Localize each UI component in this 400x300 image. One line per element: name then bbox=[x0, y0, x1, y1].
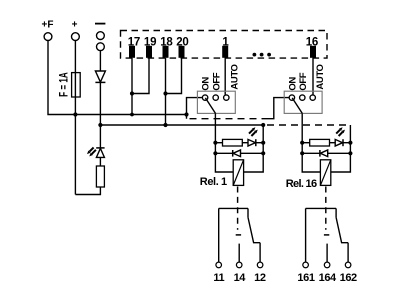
wire + through fuse down to indicator loop bbox=[74, 41, 76, 195]
wire +F to bus A bbox=[48, 41, 187, 115]
wire LED to resistor bbox=[99, 157, 101, 166]
LED relay 16 bbox=[335, 139, 342, 146]
LED power indicator bbox=[96, 147, 104, 149]
svg-text:164: 164 bbox=[319, 272, 337, 284]
terminal 162 bbox=[345, 262, 351, 268]
terminal - upper bbox=[97, 32, 105, 40]
wire 20 joins 18 bbox=[166, 58, 182, 94]
junction dot bus B left bbox=[98, 123, 102, 127]
terminal 11 bbox=[216, 262, 222, 268]
switch S1 AUTO contact bbox=[224, 95, 229, 100]
contact blade relay 16 bbox=[336, 217, 348, 242]
wire 17 to bus A bbox=[131, 58, 133, 115]
junction dot R branch left relay16 bbox=[300, 141, 304, 145]
wire relay 1 common bbox=[215, 113, 233, 172]
wire relay 16 common bbox=[302, 113, 320, 172]
junction dot diode branch left bbox=[213, 151, 217, 155]
wire diode to bus B and LED bbox=[99, 82, 101, 147]
contact blade relay 1 bbox=[248, 217, 260, 242]
svg-text:11: 11 bbox=[213, 272, 224, 284]
svg-text:F = 1A: F = 1A bbox=[58, 72, 71, 97]
relay coil Rel.1 bbox=[233, 160, 243, 186]
wire feed switch 16 ON bbox=[268, 98, 290, 119]
svg-text:12: 12 bbox=[254, 272, 266, 284]
junction dot relay1 right diode branch bbox=[261, 151, 265, 155]
wire to resistor bbox=[215, 142, 222, 144]
svg-text:+F: +F bbox=[42, 20, 54, 31]
ellipsis dots bbox=[253, 53, 272, 57]
svg-text:14: 14 bbox=[234, 272, 247, 284]
terminal 161 bbox=[303, 262, 309, 268]
switch S1 ON contact bbox=[202, 95, 207, 100]
junction dot relay1 bus B bbox=[261, 123, 265, 127]
terminal 1 pin bbox=[222, 46, 228, 58]
junction dot bus A feed bbox=[184, 112, 188, 116]
terminal + bbox=[72, 33, 80, 41]
svg-text:161: 161 bbox=[297, 272, 314, 284]
resistor R1 bbox=[96, 166, 104, 187]
svg-text:+: + bbox=[72, 20, 78, 31]
svg-text:OFF: OFF bbox=[298, 72, 309, 90]
terminal 19 pin bbox=[146, 46, 152, 58]
junction dot 17 bus A bbox=[130, 113, 134, 117]
terminal 17 pin bbox=[129, 46, 135, 58]
svg-text:OFF: OFF bbox=[211, 72, 222, 90]
freewheel diode relay 16 bbox=[302, 152, 320, 154]
junction dot relay16 right diode branch bbox=[348, 151, 352, 155]
terminal 14 bbox=[236, 262, 242, 268]
junction dot 19-17 bbox=[130, 91, 134, 95]
wire resistor bottom loop to + rail bbox=[75, 187, 100, 195]
resistor relay 1 bbox=[223, 139, 243, 146]
bus B solid bbox=[100, 124, 263, 126]
junction dot 18 bus B bbox=[163, 123, 167, 127]
terminal 16 pin bbox=[310, 46, 316, 58]
switch S1 box bbox=[197, 91, 235, 113]
wire feed switch 1 ON bbox=[187, 98, 203, 119]
resistor relay 16 bbox=[310, 139, 330, 146]
switch S16 ON contact bbox=[289, 95, 294, 100]
relay 16 contact top bar bbox=[306, 207, 337, 209]
terminal - lower bbox=[97, 43, 105, 51]
svg-text:Rel. 1: Rel. 1 bbox=[200, 176, 227, 188]
junction dot 20-18 bbox=[163, 91, 167, 95]
relay 1 contact top bar bbox=[219, 207, 248, 209]
junction dot diode branch left relay16 bbox=[300, 151, 304, 155]
terminal 164 bbox=[324, 262, 330, 268]
bus B dashed continuation bbox=[267, 124, 350, 126]
fuse F1 bbox=[72, 73, 81, 97]
wire 18 to bus B bbox=[165, 58, 167, 125]
LED arrows bbox=[90, 148, 96, 154]
svg-text:ON: ON bbox=[288, 77, 299, 91]
terminal 12 bbox=[257, 262, 263, 268]
terminal 18 pin bbox=[163, 46, 169, 58]
wire 19 joins 17 bbox=[132, 58, 149, 94]
connector dashed box bbox=[121, 31, 328, 59]
switch S16 OFF contact bbox=[300, 95, 305, 100]
wire terminal 11 bbox=[218, 208, 220, 262]
wire dashed feed channels 2..16 bbox=[190, 118, 268, 120]
mechanical link relay 1 bbox=[237, 187, 239, 230]
LED relay 16 arrows bbox=[336, 130, 342, 136]
wire input 1 to AUTO contact bbox=[224, 58, 226, 95]
junction dot relay16 right R branch bbox=[348, 141, 352, 145]
terminal +F bbox=[44, 33, 52, 41]
wire relay 16 right side bbox=[331, 125, 351, 172]
switch S16 AUTO contact bbox=[310, 95, 315, 100]
LED relay 1 bbox=[248, 139, 255, 146]
wire resistor to LED relay16 bbox=[330, 142, 336, 144]
wire resistor to LED bbox=[242, 142, 248, 144]
mechanical link relay 16 bbox=[325, 187, 327, 230]
svg-text:ON: ON bbox=[201, 77, 212, 91]
wire relay 1 right side bbox=[244, 125, 264, 172]
switch S1 OFF contact bbox=[213, 95, 218, 100]
junction dot R branch left bbox=[213, 141, 217, 145]
contact pivot relay 16 bbox=[335, 208, 337, 217]
diode D1 bbox=[95, 71, 105, 82]
wire - to diode bbox=[99, 51, 101, 71]
switch S16 box bbox=[284, 91, 322, 113]
junction dot relay1 right R branch bbox=[261, 141, 265, 145]
svg-text:AUTO: AUTO bbox=[315, 64, 326, 89]
freewheel diode relay 1 bbox=[215, 152, 232, 154]
svg-text:AUTO: AUTO bbox=[229, 64, 240, 89]
wire terminal 12 bbox=[259, 243, 261, 262]
wire terminal 14 bbox=[238, 244, 240, 263]
wire to resistor relay16 bbox=[302, 142, 310, 144]
terminal - label bbox=[95, 23, 105, 25]
switch S16 lever bbox=[292, 98, 302, 113]
contact pivot relay 1 bbox=[247, 208, 249, 217]
wire terminal 161 bbox=[305, 208, 307, 262]
relay coil Rel.16 bbox=[320, 160, 330, 186]
wire terminal 164 bbox=[326, 244, 328, 263]
LED relay 1 arrows bbox=[249, 130, 255, 136]
terminal 20 pin bbox=[179, 46, 185, 58]
svg-text:Rel. 16: Rel. 16 bbox=[286, 178, 317, 190]
wire terminal 162 bbox=[347, 243, 349, 262]
wire input 16 to AUTO contact bbox=[312, 58, 314, 95]
switch S1 lever bbox=[205, 98, 215, 113]
svg-text:162: 162 bbox=[340, 272, 357, 284]
junction dot + rail bbox=[73, 112, 77, 116]
